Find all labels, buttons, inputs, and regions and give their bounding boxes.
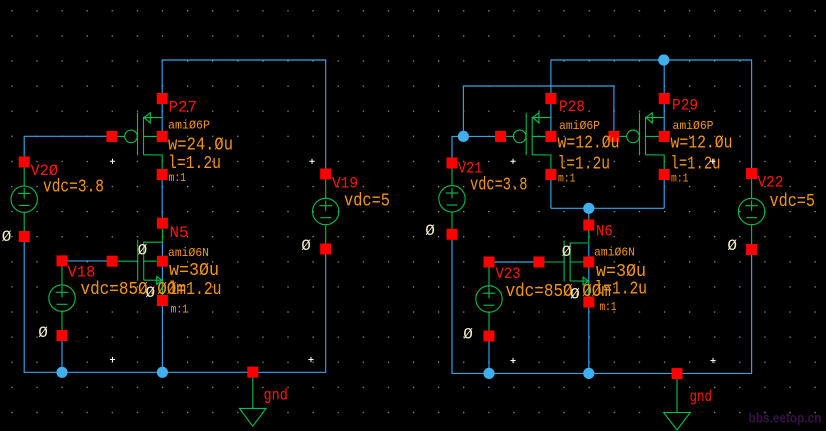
- wire V19 minus down: [325, 249, 327, 373]
- svg-text:N5: N5: [170, 224, 189, 242]
- junction N6 on ground rail: [583, 368, 594, 379]
- pin N5 drain: [157, 218, 168, 229]
- svg-text:w=3Øu: w=3Øu: [169, 261, 219, 281]
- wire middle rail P28 P29 sources: [551, 207, 664, 209]
- svg-text:V23: V23: [496, 265, 521, 283]
- wire gate node to V21 plus: [452, 136, 464, 163]
- svg-text:Ø: Ø: [38, 324, 48, 342]
- voltage source V21: [439, 162, 465, 236]
- svg-text:vdc=3.8: vdc=3.8: [470, 176, 527, 196]
- wire V23 minus down: [488, 336, 490, 373]
- pin V22 minus: [746, 244, 757, 255]
- junction N5 on ground rail: [157, 367, 168, 378]
- pin P28 drain: [545, 93, 556, 104]
- svg-text:V19: V19: [332, 175, 358, 193]
- pin N6 source: [583, 297, 594, 308]
- wire bottom rail right circuit: [451, 372, 751, 374]
- pin V19 plus: [320, 169, 331, 180]
- wire P28 drain to top rail: [550, 59, 552, 131]
- wire top rail left circuit: [162, 59, 326, 61]
- wire V21 minus down: [451, 234, 453, 373]
- svg-text:m:1: m:1: [171, 303, 189, 317]
- transistor P28: [506, 113, 551, 170]
- pin V18 plus: [57, 255, 68, 266]
- wire N5 vertical to ground rail: [161, 242, 163, 372]
- svg-text:amiØ6N: amiØ6N: [594, 246, 635, 260]
- wire top rail to V22 plus: [751, 59, 753, 168]
- wire top rail right circuit: [551, 59, 752, 61]
- pin P29 drain: [659, 93, 670, 104]
- svg-text:Ø: Ø: [570, 286, 580, 304]
- pin V21 minus: [447, 229, 458, 240]
- pin N6 drain: [583, 220, 594, 231]
- pin gnd right: [672, 368, 683, 379]
- wire node N5: P27 source to N5 drain: [161, 175, 163, 224]
- pin P27 bulk: [157, 131, 168, 142]
- svg-text:amiØ6P: amiØ6P: [673, 119, 714, 133]
- origin marker 6: [308, 357, 313, 362]
- wire V18 minus down: [61, 336, 63, 373]
- pin V18 minus: [57, 330, 68, 341]
- svg-text:N6: N6: [596, 223, 613, 241]
- svg-text:P28: P28: [559, 98, 585, 116]
- voltage source V19: [313, 175, 339, 249]
- pin N6 gate: [533, 257, 544, 268]
- pin N6 bulk: [583, 257, 594, 268]
- voltage source V22: [738, 175, 764, 249]
- transistor P27: [117, 113, 162, 170]
- svg-text:amiØ6P: amiØ6P: [559, 119, 600, 133]
- transistor N5: [118, 229, 163, 295]
- svg-text:amiØ6N: amiØ6N: [168, 246, 209, 260]
- svg-text:vdc=5: vdc=5: [344, 192, 390, 212]
- pin V20 plus: [19, 157, 30, 168]
- svg-text:Ø: Ø: [2, 228, 12, 246]
- wire gate net down to P29 gate: [613, 85, 615, 136]
- junction V18 on ground rail: [56, 367, 67, 378]
- svg-text:m:1: m:1: [558, 172, 576, 186]
- origin marker 1: [110, 159, 115, 164]
- svg-text:Ø: Ø: [425, 222, 435, 240]
- wire V20 minus down: [23, 237, 25, 373]
- origin marker 3: [510, 159, 515, 164]
- pin V23 plus: [484, 257, 495, 268]
- pin P27 drain: [157, 93, 168, 104]
- svg-text:Ø: Ø: [301, 237, 311, 255]
- svg-text:Ø: Ø: [463, 325, 473, 343]
- svg-text:vdc=3.8: vdc=3.8: [43, 178, 104, 198]
- svg-text:w=12.Øu: w=12.Øu: [671, 134, 733, 154]
- pin gnd left: [247, 367, 258, 378]
- ground symbol left: [240, 378, 267, 427]
- wire V20 plus to P27 gate: [24, 136, 112, 162]
- voltage source V20: [11, 162, 37, 236]
- wire gate net horizontal: [463, 85, 614, 87]
- origin marker 5: [110, 357, 115, 362]
- pin P28 source: [545, 169, 556, 180]
- pin P28 gate: [495, 131, 506, 142]
- junction gate node V21: [458, 131, 469, 142]
- svg-text:vdc=5: vdc=5: [770, 192, 816, 212]
- wire top rail to V19 plus: [325, 59, 327, 169]
- svg-text:Ø: Ø: [727, 237, 737, 255]
- pin V23 minus: [484, 331, 495, 342]
- svg-text:amiØ6P: amiØ6P: [168, 119, 210, 133]
- wire P29 drain to top rail: [663, 59, 665, 131]
- junction V23 on ground rail: [483, 368, 494, 379]
- wire P29 source down: [663, 175, 665, 209]
- wire P27 drain to top rail: [161, 59, 163, 131]
- pin P29 source: [659, 169, 670, 180]
- origin marker 2: [309, 159, 314, 164]
- svg-text:P29: P29: [672, 97, 698, 115]
- wire gate node to P28 gate: [463, 135, 500, 137]
- svg-text:V18: V18: [68, 264, 96, 282]
- pin V19 minus: [320, 244, 331, 255]
- svg-text:Ø: Ø: [562, 243, 572, 261]
- svg-text:vdc=85Ø.ØØm: vdc=85Ø.ØØm: [81, 280, 187, 300]
- wire node N6 drain up: [588, 208, 590, 226]
- svg-text:m:1: m:1: [600, 300, 617, 314]
- wire V18 plus to N5 gate: [62, 260, 112, 262]
- svg-text:vdc=85Ø.ØØm: vdc=85Ø.ØØm: [506, 282, 612, 302]
- wire V22 minus down: [751, 250, 753, 375]
- pin P29 bulk: [659, 131, 670, 142]
- ground symbol right: [664, 379, 691, 430]
- wire bottom rail left circuit: [24, 371, 326, 373]
- origin marker 7: [510, 358, 515, 363]
- pin P28 bulk: [545, 131, 556, 142]
- wire V23 plus to N6 gate: [489, 261, 539, 263]
- svg-text:Ø: Ø: [146, 284, 156, 302]
- pin P27 source: [157, 169, 168, 180]
- pin V22 plus: [746, 168, 757, 179]
- wire gate node up: [462, 86, 464, 137]
- origin marker 4: [710, 159, 715, 164]
- svg-text:w=12.Øu: w=12.Øu: [558, 134, 620, 154]
- svg-text:V22: V22: [758, 174, 784, 192]
- pin P27 gate: [106, 131, 117, 142]
- junction N6 drain on middle rail: [583, 203, 594, 214]
- junction P29 on top rail: [658, 54, 669, 65]
- transistor P29: [619, 113, 664, 170]
- svg-text:m:1: m:1: [169, 171, 187, 185]
- wire P28 source down: [550, 175, 552, 209]
- svg-text:gnd: gnd: [690, 388, 713, 406]
- transistor N6: [544, 230, 589, 296]
- pin N5 gate: [107, 256, 118, 267]
- svg-text:m:1: m:1: [671, 172, 689, 186]
- voltage source V23: [476, 262, 502, 336]
- pin P29 gate: [608, 131, 619, 142]
- svg-text:w=24.Øu: w=24.Øu: [168, 136, 233, 156]
- voltage source V18: [49, 261, 75, 335]
- pin N5 source: [157, 295, 168, 306]
- wire N6 vertical to ground rail: [588, 244, 590, 373]
- svg-text:P27: P27: [169, 99, 198, 117]
- svg-text:gnd: gnd: [264, 387, 288, 405]
- pin V21 plus: [447, 158, 458, 169]
- pin V20 minus: [19, 231, 30, 242]
- svg-text:Ø: Ø: [138, 242, 148, 260]
- origin marker 8: [710, 358, 715, 363]
- pin N5 bulk: [157, 256, 168, 267]
- svg-text:bbs.eetop.cn: bbs.eetop.cn: [749, 411, 822, 426]
